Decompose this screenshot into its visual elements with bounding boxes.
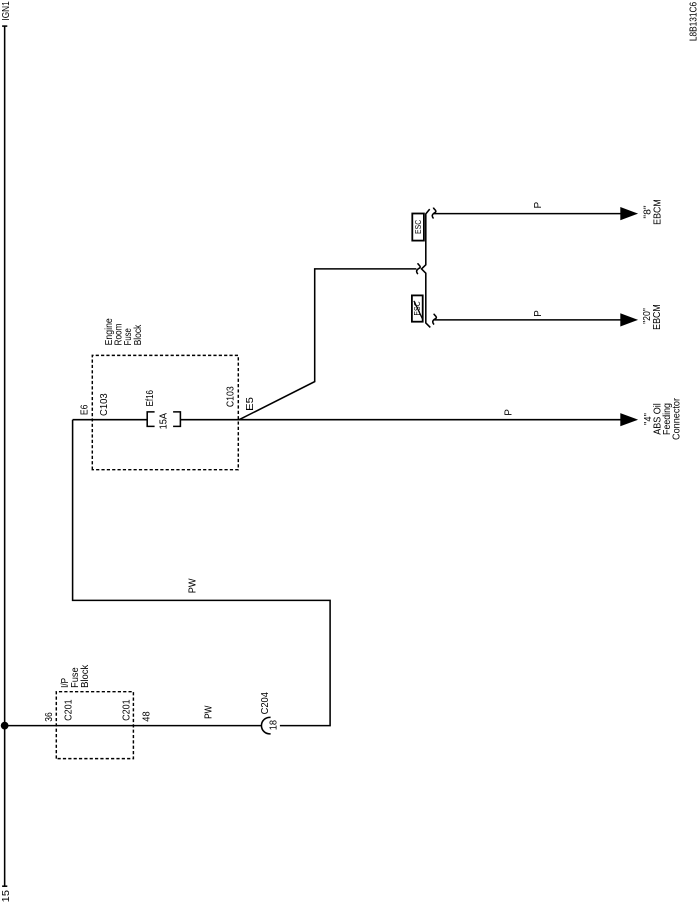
fuse Ef16 top bracket [147,412,154,427]
svg-text:P: P [533,310,544,317]
connector C204 half circle [261,717,270,734]
svg-text:C204: C204 [260,692,271,715]
svg-text:C201: C201 [122,699,133,721]
svg-text:E6: E6 [80,404,91,415]
tick left end of IGN1 bus [2,885,7,887]
svg-text:C103: C103 [99,393,110,416]
option box ESC crossed out (non-ESC) [412,295,423,321]
wire into fuse Ef16 [73,419,148,421]
svg-text:15: 15 [1,890,12,903]
wire to "8" EBCM [434,213,621,215]
svg-text:PW: PW [187,578,198,593]
label Engine Room Fuse Block [104,318,144,346]
svg-text:36: 36 [44,712,55,722]
wire from fuse down to ABS oil feeding connector arrow [181,419,621,421]
label I/P Fuse Block [60,664,91,688]
wire to "20" EBCM [434,319,620,321]
wire from junction down to connector C204 [5,725,262,727]
svg-text:C103: C103 [225,386,236,407]
svg-text:PW: PW [204,705,215,719]
svg-text:EBCM: EBCM [652,304,663,330]
label "8" EBCM [643,199,664,225]
harness bundle line with notch [422,209,431,327]
wire IGN1 bus [4,26,6,886]
wire from C204 down, right, and up to engine room fuse block [73,420,331,726]
option box ESC [412,214,424,241]
harness entry brace [417,263,421,274]
branch brace to "20" EBCM [433,314,437,325]
svg-text:P: P [533,202,544,209]
svg-text:IGN1: IGN1 [1,1,12,21]
arrow to "20" EBCM [620,313,638,326]
svg-text:L8B131C6: L8B131C6 [689,2,700,42]
svg-text:Block: Block [133,324,144,346]
tick right end of IGN1 bus [2,25,7,27]
branch brace to "8" EBCM [432,208,436,219]
junction dot on IGN1 bus [1,722,9,730]
svg-text:P: P [503,409,514,416]
wire branch diagonal from E5 to harness bundle [239,269,416,420]
arrow to ABS oil feeding connector [620,413,638,426]
svg-text:EBCM: EBCM [653,199,664,225]
svg-text:48: 48 [142,711,153,722]
svg-text:15A: 15A [159,413,170,430]
engine room fuse block dashed box [92,355,238,469]
label "4" ABS Oil Feeding Connector [643,397,683,440]
label "20" EBCM [642,304,663,330]
arrow to "8" EBCM [620,207,638,220]
svg-text:18: 18 [269,720,280,731]
fuse Ef16 bottom bracket [173,412,180,427]
I/P fuse block dashed box [56,692,133,759]
svg-text:Connector: Connector [672,397,683,440]
svg-text:Ef16: Ef16 [145,390,156,407]
svg-text:E5: E5 [245,397,256,411]
svg-text:C201: C201 [64,699,75,721]
svg-text:Block: Block [80,664,91,688]
svg-text:ESC: ESC [414,220,423,234]
